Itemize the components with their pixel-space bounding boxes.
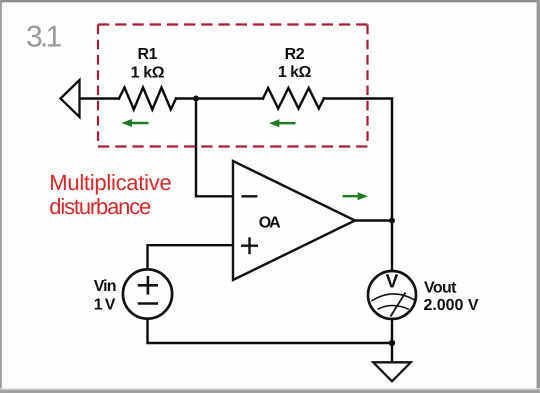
svg-text:OA: OA bbox=[259, 215, 281, 232]
svg-text:1 V: 1 V bbox=[94, 297, 116, 314]
svg-text:R1: R1 bbox=[138, 46, 158, 63]
svg-text:Vout: Vout bbox=[424, 279, 457, 296]
svg-text:R2: R2 bbox=[285, 46, 305, 63]
svg-text:V: V bbox=[386, 272, 399, 293]
svg-text:1 kΩ: 1 kΩ bbox=[131, 64, 165, 81]
svg-text:3.1: 3.1 bbox=[26, 21, 62, 54]
svg-text:disturbance: disturbance bbox=[49, 194, 151, 219]
svg-text:Multiplicative: Multiplicative bbox=[49, 170, 171, 195]
svg-text:2.000 V: 2.000 V bbox=[424, 297, 479, 314]
svg-text:1 kΩ: 1 kΩ bbox=[278, 64, 312, 81]
svg-text:Vin: Vin bbox=[94, 278, 117, 295]
